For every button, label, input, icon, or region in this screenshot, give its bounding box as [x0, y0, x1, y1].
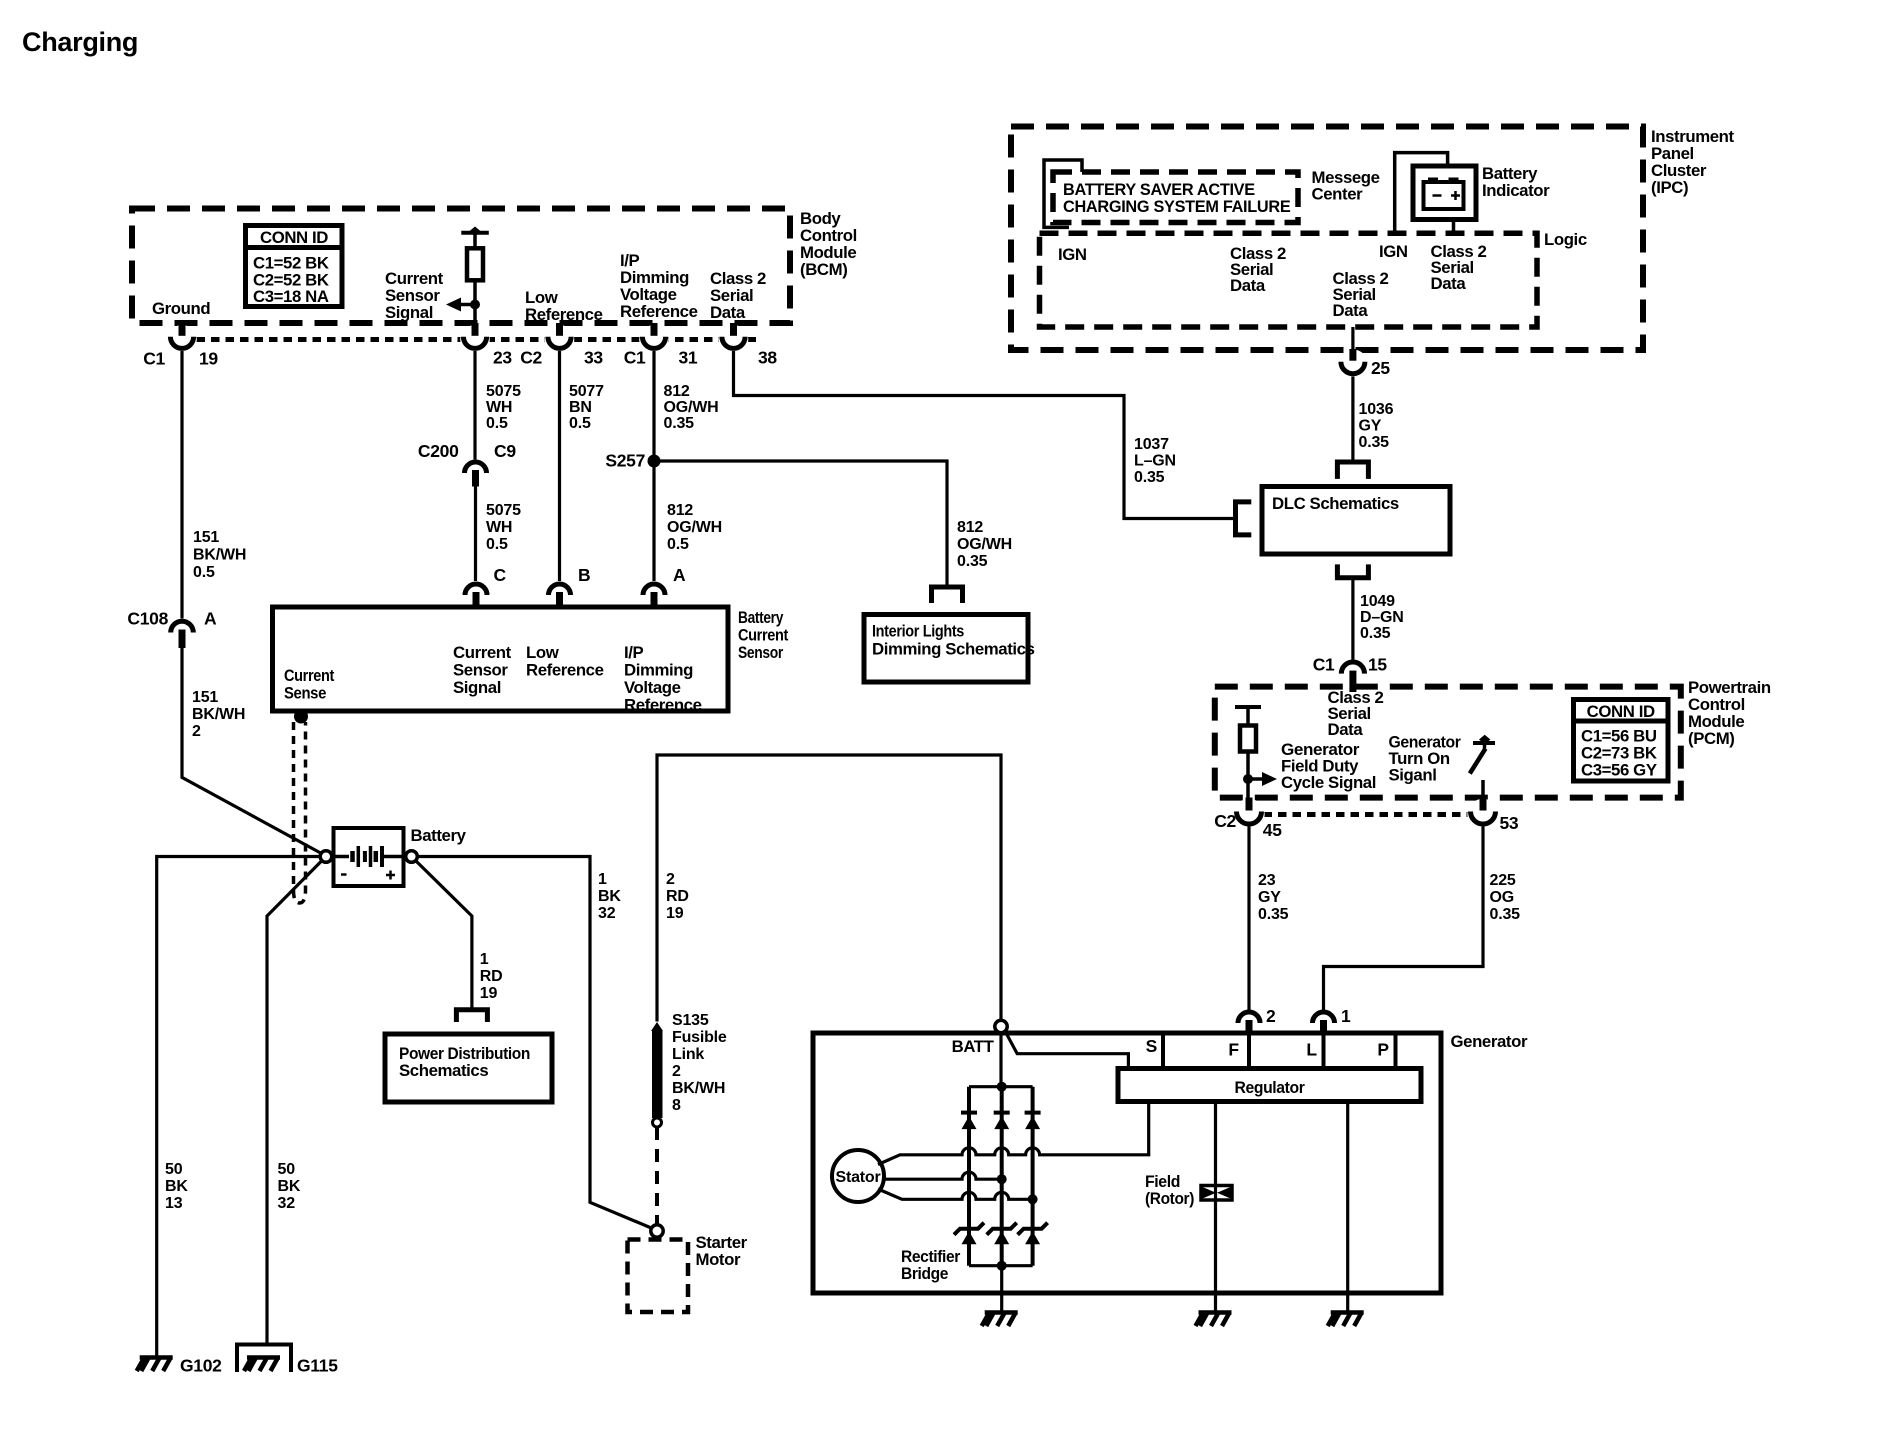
- svg-text:Voltage: Voltage: [624, 678, 681, 697]
- svg-text:BK: BK: [165, 1178, 188, 1195]
- svg-text:(PCM): (PCM): [1688, 729, 1734, 748]
- wire 5077 BN 0.5 from pin 33 to sensor pin B: [558, 351, 561, 581]
- svg-text:S135: S135: [672, 1012, 709, 1029]
- svg-text:Sensor: Sensor: [453, 661, 508, 680]
- ground generator 1: [982, 1313, 1018, 1327]
- svg-text:Motor: Motor: [696, 1250, 741, 1269]
- logic box (dashed): [1040, 233, 1538, 327]
- wire 151 BK/WH 0.5 from pin 19 to C108: [180, 351, 183, 619]
- svg-text:Dimming Schematics: Dimming Schematics: [872, 640, 1035, 659]
- connector pin 23 (BCM Current Sensor Signal): [460, 323, 490, 355]
- svg-text:BK: BK: [598, 888, 621, 905]
- wire IGN feed to message center: [1044, 160, 1082, 227]
- svg-text:50: 50: [165, 1161, 183, 1178]
- BCM CONN ID table: [246, 226, 343, 307]
- svg-text:S: S: [1146, 1036, 1157, 1056]
- svg-text:IGN: IGN: [1379, 242, 1408, 261]
- svg-text:Charging: Charging: [22, 27, 138, 57]
- receptacle bracket DLC top: [1337, 462, 1368, 479]
- connector pin 1 (generator L): [1313, 1012, 1335, 1034]
- wire class 2 serial data out of logic box: [1351, 327, 1354, 350]
- svg-text:C108: C108: [127, 609, 168, 629]
- svg-text:1037: 1037: [1134, 436, 1169, 453]
- svg-text:Data: Data: [1333, 301, 1369, 320]
- svg-text:L: L: [1306, 1040, 1317, 1060]
- svg-text:Reference: Reference: [620, 302, 698, 321]
- svg-text:C: C: [494, 565, 507, 585]
- stator winding bottom wire: [878, 1189, 1028, 1199]
- battery negative terminal: [320, 851, 332, 863]
- svg-text:0.5: 0.5: [486, 536, 508, 553]
- svg-text:WH: WH: [486, 519, 512, 536]
- terminal divider P: [1394, 1035, 1398, 1069]
- stator: [832, 1150, 884, 1202]
- wire IGN feed to battery indicator: [1395, 153, 1448, 232]
- ground G102: [137, 1358, 173, 1372]
- svg-text:C3=56 GY: C3=56 GY: [1581, 761, 1657, 780]
- splice S257: [648, 455, 661, 468]
- svg-text:13: 13: [165, 1195, 183, 1212]
- svg-text:0.35: 0.35: [1490, 906, 1521, 923]
- rectifier zener 1: [954, 1223, 984, 1245]
- svg-text:0.5: 0.5: [667, 536, 689, 553]
- field rotor winding symbol: [1201, 1186, 1232, 1201]
- svg-text:151: 151: [193, 529, 219, 546]
- battery positive terminal: [406, 851, 418, 863]
- svg-text:0.35: 0.35: [1359, 434, 1390, 451]
- wire generator ground 2: [1214, 1293, 1217, 1313]
- svg-text:C1: C1: [624, 348, 646, 368]
- svg-text:Current: Current: [738, 626, 789, 645]
- wire 1 RD 19 battery positive to power distribution: [416, 861, 472, 1011]
- svg-text:38: 38: [758, 348, 777, 368]
- svg-text:G115: G115: [297, 1356, 338, 1376]
- wire 5075 WH 0.5 from pin 23 to C200: [473, 351, 476, 460]
- svg-text:0.5: 0.5: [569, 415, 591, 432]
- wire 1049 D-GN 0.35 from DLC to PCM C1-15: [1351, 578, 1354, 660]
- receptacle bracket DLC bottom: [1337, 564, 1368, 577]
- stator winding top wire to regulator: [878, 1102, 1149, 1165]
- connector C1 pin 31 (BCM I/P Dimming): [639, 323, 669, 355]
- svg-text:151: 151: [192, 689, 218, 706]
- wire 1 BK 32 battery positive to starter motor: [418, 857, 653, 1229]
- ground generator 3: [1328, 1313, 1364, 1327]
- connector pin B (battery current sensor): [549, 584, 571, 607]
- box DLC Schematics: [1262, 487, 1450, 555]
- connector C200 pin C9: [465, 462, 487, 487]
- rectifier diode 2: [994, 1113, 1010, 1130]
- switch generator turn on (inside PCM): [1470, 735, 1495, 798]
- rectifier bridge: [969, 1033, 1033, 1271]
- module box PCM (Powertrain Control Module): [1215, 687, 1681, 798]
- svg-text:0.35: 0.35: [664, 415, 695, 432]
- svg-text:BATT: BATT: [952, 1037, 995, 1056]
- wire generator ground 3: [1346, 1293, 1349, 1313]
- battery: [332, 828, 406, 886]
- svg-text:Data: Data: [710, 303, 746, 322]
- terminal divider F: [1247, 1035, 1251, 1069]
- box Interior Lights Dimming Schematics: [864, 615, 1035, 683]
- ground generator 2: [1196, 1313, 1232, 1327]
- svg-text:0.35: 0.35: [1360, 625, 1391, 642]
- svg-text:Regulator: Regulator: [1235, 1078, 1306, 1097]
- svg-text:23: 23: [1258, 872, 1276, 889]
- svg-text:Indicator: Indicator: [1482, 181, 1550, 200]
- svg-text:DLC Schematics: DLC Schematics: [1272, 494, 1399, 513]
- svg-text:WH: WH: [486, 399, 512, 416]
- svg-text:0.35: 0.35: [1258, 906, 1289, 923]
- svg-text:31: 31: [679, 348, 698, 368]
- resistor current sensor (inside BCM): [461, 227, 489, 324]
- wire 5075 WH 0.5 from C9 to sensor pin C: [474, 487, 477, 582]
- connector pin 53 (PCM): [1467, 798, 1498, 831]
- wire BATT stud to regulator S input: [1005, 1031, 1128, 1069]
- module box BCM (Body Control Module): [132, 209, 790, 324]
- svg-text:Reference: Reference: [526, 661, 604, 680]
- svg-text:I/P: I/P: [624, 643, 644, 662]
- connector pin 25 (IPC): [1338, 349, 1368, 380]
- box Power Distribution Schematics: [385, 1034, 552, 1102]
- box Battery Current Sensor: [273, 607, 729, 711]
- wire regulator right output to ground: [1346, 1102, 1349, 1294]
- svg-text:Current: Current: [284, 666, 335, 685]
- svg-text:Cycle Signal: Cycle Signal: [1281, 773, 1376, 792]
- svg-text:P: P: [1377, 1040, 1389, 1060]
- terminal BATT (generator output stud): [995, 1020, 1007, 1032]
- svg-text:BK/WH: BK/WH: [193, 547, 246, 564]
- module box IPC (Instrument Panel Cluster): [1011, 127, 1643, 351]
- connector C2 pin 33 (BCM Low Reference): [545, 323, 575, 355]
- svg-text:OG/WH: OG/WH: [664, 399, 719, 416]
- svg-text:2: 2: [666, 871, 675, 888]
- PCM CONN ID table: [1574, 700, 1669, 782]
- receptacle bracket DLC left: [1236, 502, 1252, 535]
- svg-text:Logic: Logic: [1544, 230, 1587, 249]
- svg-text:OG/WH: OG/WH: [957, 536, 1012, 553]
- svg-text:BATTERY SAVER ACTIVE: BATTERY SAVER ACTIVE: [1063, 181, 1255, 199]
- terminal starter motor stud: [651, 1225, 663, 1237]
- ground G115 bracket: [237, 1345, 291, 1373]
- ground G115: [244, 1358, 280, 1372]
- svg-text:812: 812: [667, 502, 693, 519]
- svg-text:C3=18 NA: C3=18 NA: [253, 287, 329, 306]
- svg-text:1: 1: [598, 871, 607, 888]
- wire 151 BK/WH 2 from C108 to battery negative: [182, 648, 322, 854]
- svg-text:23: 23: [493, 348, 512, 368]
- wire 225 OG 0.35 from pin 53 to generator L: [1324, 827, 1484, 1011]
- svg-text:Reference: Reference: [525, 305, 603, 324]
- rectifier diode 3: [1025, 1113, 1041, 1130]
- svg-text:1036: 1036: [1359, 401, 1394, 418]
- svg-text:53: 53: [1500, 813, 1519, 833]
- svg-text:S257: S257: [605, 451, 645, 471]
- svg-text:BK/WH: BK/WH: [672, 1080, 725, 1097]
- connector pin 2 (generator F): [1238, 1012, 1260, 1034]
- svg-text:(BCM): (BCM): [800, 260, 847, 279]
- BCM connector row dotted line: [182, 337, 762, 342]
- svg-text:Center: Center: [1312, 185, 1364, 204]
- wire 1037 L-GN 0.35 from pin 38 to DLC: [734, 351, 1236, 519]
- wire 50 BK 13 battery negative to G102: [157, 857, 320, 1358]
- box Regulator: [1118, 1069, 1421, 1102]
- connector C2 pin 45 (PCM): [1233, 798, 1264, 831]
- svg-text:OG/WH: OG/WH: [667, 519, 722, 536]
- connector C108 pin A: [171, 621, 194, 648]
- svg-text:B: B: [578, 565, 590, 585]
- svg-text:BN: BN: [569, 399, 592, 416]
- svg-text:Generator: Generator: [1451, 1032, 1528, 1051]
- stator winding middle wire: [885, 1172, 998, 1179]
- arrow generator field duty cycle signal: [1243, 772, 1277, 786]
- svg-text:0.5: 0.5: [193, 564, 215, 581]
- svg-text:812: 812: [957, 519, 983, 536]
- svg-text:RD: RD: [480, 968, 503, 985]
- fusible link S135: [651, 1022, 663, 1127]
- wire 23 GY 0.35 from pin 45 to generator F: [1247, 827, 1250, 1011]
- box Starter Motor (dashed): [628, 1240, 689, 1313]
- svg-text:(Rotor): (Rotor): [1145, 1189, 1194, 1208]
- svg-text:C9: C9: [494, 441, 516, 461]
- resistor generator field duty (inside PCM): [1235, 707, 1261, 798]
- current sense dashed loop around battery cable: [294, 722, 306, 903]
- svg-text:Battery: Battery: [738, 608, 784, 627]
- connector C1 pin 19 (BCM Ground): [167, 323, 197, 355]
- svg-text:0.35: 0.35: [1134, 469, 1165, 486]
- dashed wire fusible link to starter motor: [655, 1127, 659, 1224]
- svg-text:2: 2: [192, 723, 201, 740]
- svg-text:Sensor: Sensor: [738, 643, 784, 662]
- svg-text:5075: 5075: [486, 502, 521, 519]
- svg-text:19: 19: [199, 349, 218, 369]
- svg-text:C2: C2: [1214, 811, 1236, 831]
- wire generator ground 1: [1000, 1266, 1003, 1313]
- wire 812 OG/WH 0.35 branch from S257 to interior lights dimming: [654, 461, 947, 588]
- svg-text:CONN ID: CONN ID: [1587, 702, 1655, 721]
- connector pin 38 (BCM Class 2 Serial Data): [719, 323, 749, 355]
- splice current sense pickup: [294, 710, 308, 724]
- wire field rotor from regulator: [1214, 1102, 1217, 1294]
- arrow current sensor signal output: [446, 298, 480, 312]
- terminal divider S: [1161, 1035, 1165, 1069]
- receptacle bracket interior lights box: [932, 587, 963, 603]
- svg-text:BK: BK: [278, 1178, 301, 1195]
- svg-text:G102: G102: [180, 1356, 222, 1376]
- svg-text:Schematics: Schematics: [399, 1061, 488, 1080]
- svg-text:C1: C1: [143, 349, 165, 369]
- svg-text:15: 15: [1368, 655, 1387, 675]
- box Generator: [813, 1033, 1441, 1293]
- svg-text:A: A: [204, 609, 217, 629]
- svg-text:Battery: Battery: [411, 826, 467, 845]
- svg-text:C2: C2: [520, 348, 542, 368]
- svg-text:A: A: [673, 565, 686, 585]
- svg-text:Reference: Reference: [624, 696, 702, 715]
- svg-text:Signal: Signal: [453, 678, 501, 697]
- svg-text:812: 812: [664, 383, 690, 400]
- svg-text:Interior Lights: Interior Lights: [872, 622, 964, 641]
- svg-text:D–GN: D–GN: [1360, 609, 1404, 626]
- svg-text:CONN ID: CONN ID: [260, 228, 328, 247]
- wire 50 BK 32 battery negative to G115: [267, 861, 322, 1347]
- svg-text:L–GN: L–GN: [1134, 453, 1176, 470]
- svg-text:Ground: Ground: [152, 299, 210, 318]
- svg-text:2: 2: [672, 1063, 681, 1080]
- svg-text:0.5: 0.5: [486, 415, 508, 432]
- svg-text:(IPC): (IPC): [1651, 178, 1688, 197]
- rectifier zener 3: [1018, 1223, 1048, 1245]
- svg-text:25: 25: [1371, 358, 1390, 378]
- receptacle bracket power distribution box: [456, 1010, 487, 1022]
- svg-text:Data: Data: [1431, 274, 1467, 293]
- svg-text:Data: Data: [1230, 276, 1266, 295]
- svg-text:0.35: 0.35: [957, 553, 988, 570]
- svg-text:19: 19: [666, 905, 684, 922]
- box message center (dashed): [1053, 172, 1298, 223]
- svg-text:19: 19: [480, 985, 498, 1002]
- svg-text:Signal: Signal: [385, 303, 433, 322]
- svg-text:OG: OG: [1490, 889, 1515, 906]
- svg-text:8: 8: [672, 1097, 681, 1114]
- svg-text:1049: 1049: [1360, 593, 1395, 610]
- svg-text:CHARGING SYSTEM FAILURE: CHARGING SYSTEM FAILURE: [1063, 198, 1291, 216]
- rectifier zener 2: [987, 1223, 1017, 1245]
- rectifier diode 1: [961, 1113, 977, 1130]
- svg-text:Link: Link: [672, 1046, 704, 1063]
- PCM connector row dotted line: [1249, 812, 1483, 817]
- svg-text:Fusible: Fusible: [672, 1029, 727, 1046]
- svg-text:Data: Data: [1328, 720, 1364, 739]
- svg-text:Stator: Stator: [835, 1169, 880, 1186]
- wire 2 RD 19 generator BATT to fusible link: [657, 755, 1001, 1022]
- svg-text:225: 225: [1490, 872, 1516, 889]
- svg-text:45: 45: [1263, 820, 1282, 840]
- svg-text:1: 1: [1341, 1006, 1351, 1026]
- terminal divider L: [1322, 1035, 1326, 1069]
- svg-text:32: 32: [598, 905, 616, 922]
- svg-text:5075: 5075: [486, 383, 521, 400]
- svg-text:2: 2: [1266, 1006, 1276, 1026]
- text BATTERY SAVER ACTIVE / CHARGING SYSTEM FAILURE: [1063, 181, 1291, 216]
- svg-text:Siganl: Siganl: [1389, 766, 1437, 785]
- svg-text:Current: Current: [453, 643, 512, 662]
- svg-text:IGN: IGN: [1058, 245, 1087, 264]
- svg-text:Sense: Sense: [284, 684, 326, 703]
- svg-text:1: 1: [480, 951, 489, 968]
- connector C1 pin 15 (PCM): [1341, 662, 1364, 692]
- svg-text:GY: GY: [1258, 889, 1281, 906]
- svg-text:33: 33: [584, 348, 603, 368]
- wire 812 OG/WH from pin 31 through S257 to sensor pin A: [652, 351, 655, 581]
- connector pin C (battery current sensor): [465, 584, 487, 607]
- svg-text:GY: GY: [1359, 418, 1382, 435]
- svg-text:32: 32: [278, 1195, 296, 1212]
- svg-text:C1: C1: [1313, 655, 1335, 675]
- svg-text:F: F: [1228, 1040, 1239, 1060]
- battery indicator (IPC telltale): [1413, 166, 1476, 233]
- svg-text:5077: 5077: [569, 383, 604, 400]
- connector pin A (battery current sensor): [643, 584, 665, 607]
- wire 1036 GY 0.35 from pin 25 to DLC: [1351, 377, 1354, 464]
- svg-text:BK/WH: BK/WH: [192, 706, 245, 723]
- svg-text:Low: Low: [526, 643, 560, 662]
- svg-text:Dimming: Dimming: [624, 661, 693, 680]
- svg-text:Bridge: Bridge: [901, 1264, 948, 1283]
- svg-text:50: 50: [278, 1161, 296, 1178]
- svg-text:C200: C200: [418, 441, 459, 461]
- svg-text:RD: RD: [666, 888, 689, 905]
